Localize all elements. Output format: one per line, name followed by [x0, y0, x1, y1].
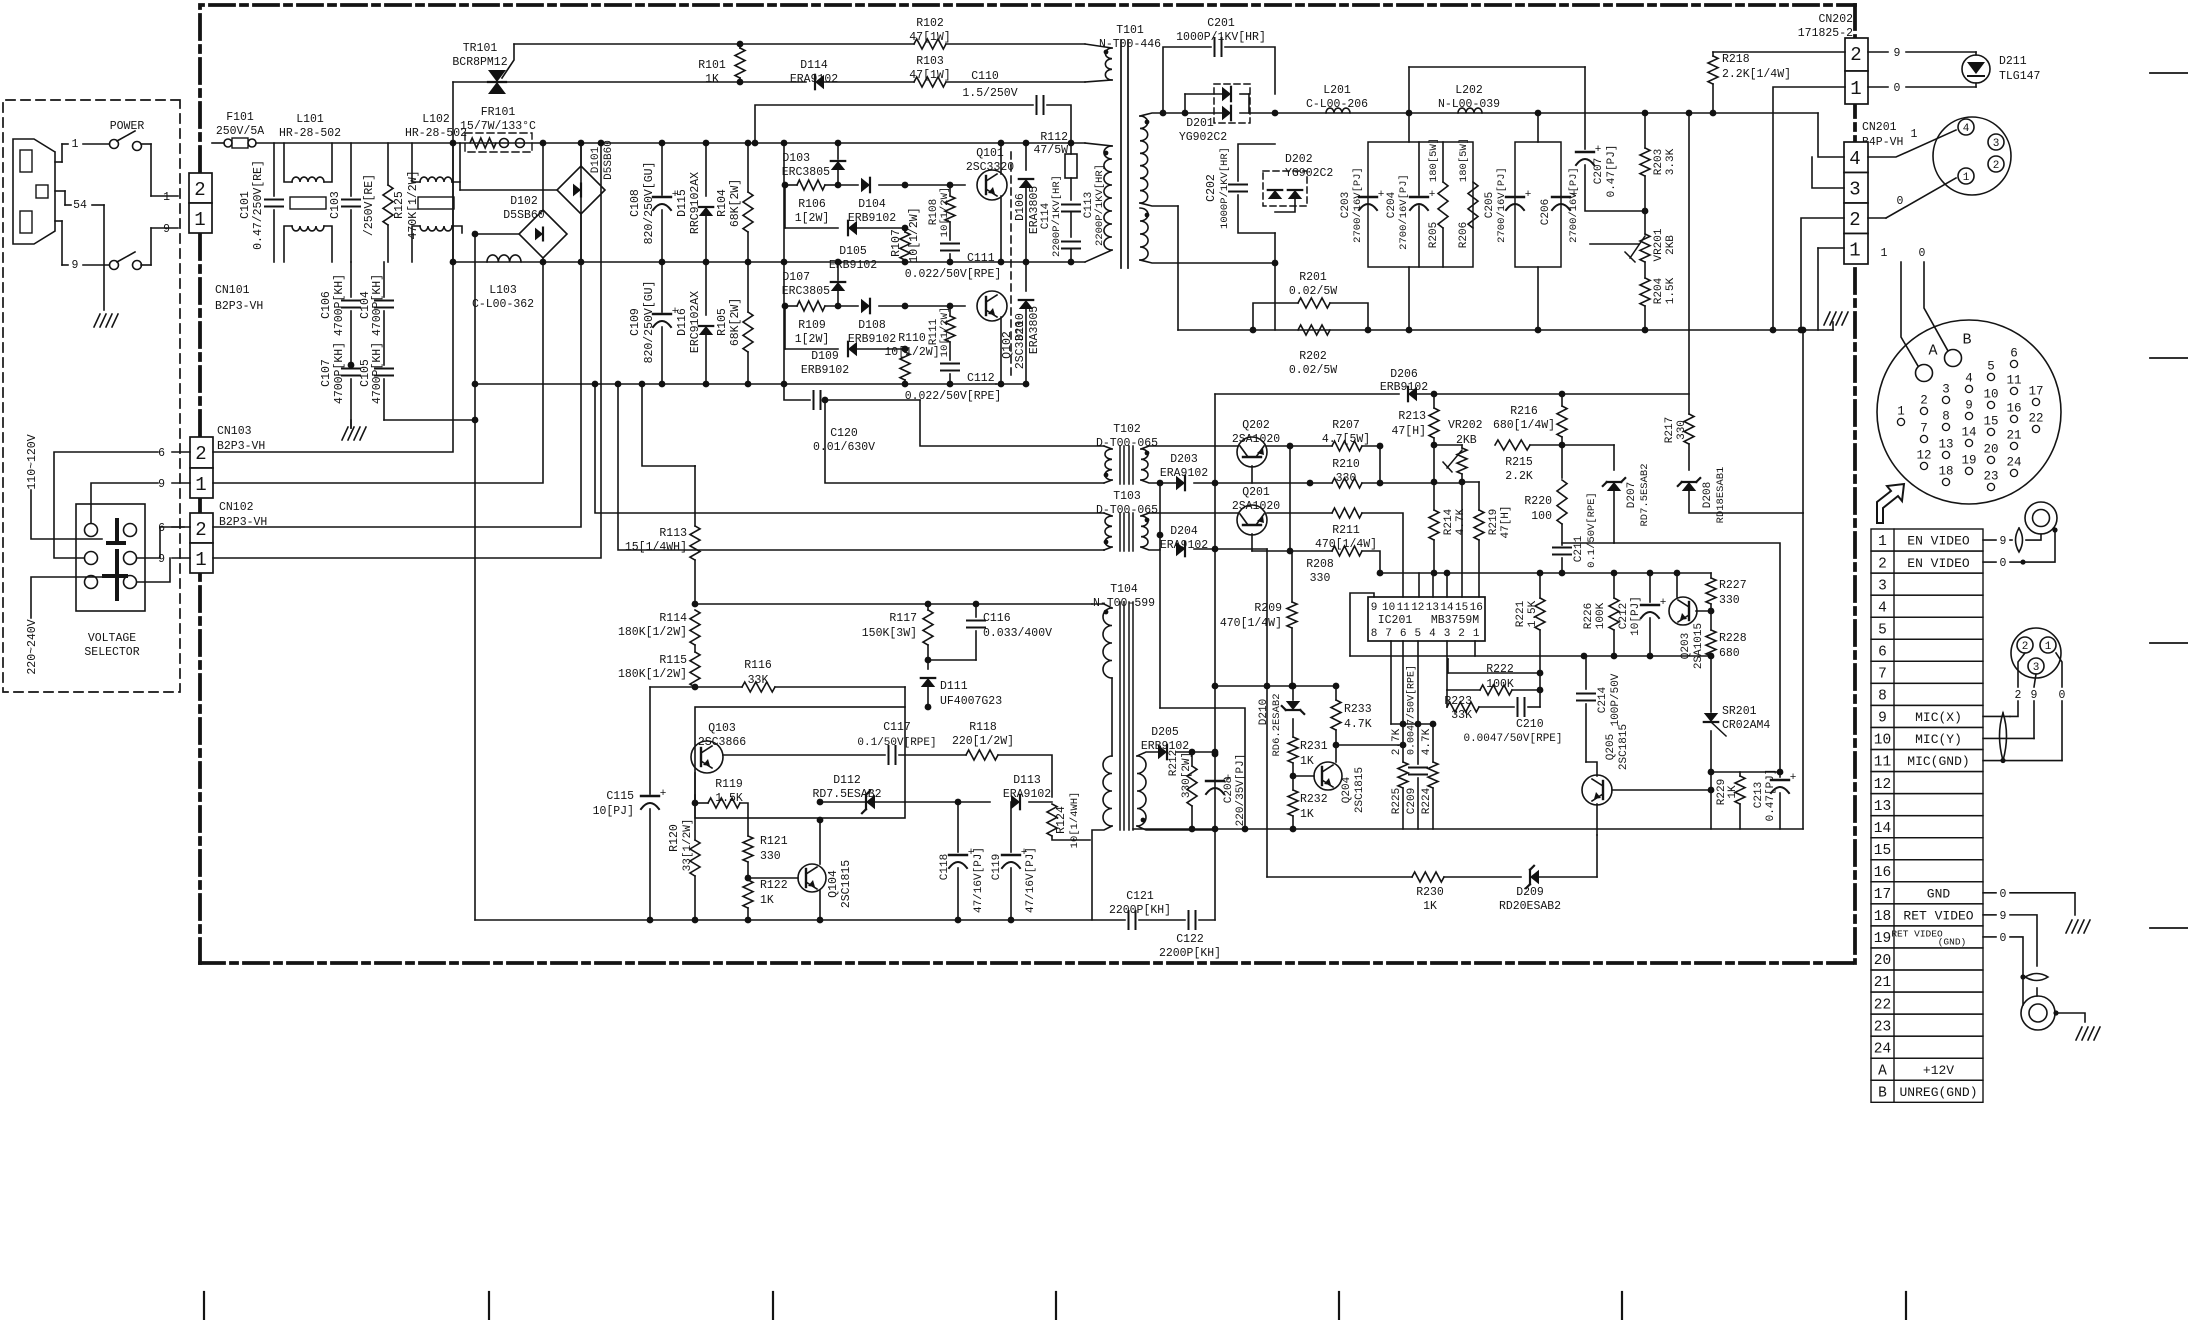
svg-text:R124: R124 [1055, 806, 1068, 834]
svg-text:13: 13 [1938, 438, 1953, 452]
svg-text:180[5W]: 180[5W] [1458, 138, 1470, 182]
svg-text:100P/50V: 100P/50V [1610, 673, 1622, 726]
svg-text:0.0047/50V[RPE]: 0.0047/50V[RPE] [1463, 733, 1562, 745]
svg-text:820/250V[GU]: 820/250V[GU] [643, 281, 656, 364]
svg-text:7: 7 [1385, 628, 1392, 640]
svg-text:C117: C117 [883, 721, 911, 734]
svg-text:VR202: VR202 [1448, 419, 1483, 432]
svg-text:9: 9 [1878, 711, 1887, 727]
wire [1433, 445, 1435, 482]
svg-text:0.1/50V[RPE]: 0.1/50V[RPE] [1586, 492, 1598, 568]
svg-text:Q104: Q104 [827, 870, 840, 898]
svg-text:R212: R212 [1168, 750, 1180, 776]
svg-text:330: 330 [760, 850, 781, 863]
svg-text:Q103: Q103 [708, 722, 736, 735]
svg-text:4700P[KH]: 4700P[KH] [371, 342, 384, 404]
wire [1711, 771, 1780, 773]
svg-text:0.01/630V: 0.01/630V [813, 441, 875, 454]
svg-text:4: 4 [1963, 123, 1970, 135]
svg-text:14: 14 [1874, 821, 1891, 837]
svg-text:4: 4 [1878, 600, 1887, 616]
svg-text:12: 12 [1411, 602, 1424, 614]
svg-text:+: + [1378, 189, 1385, 201]
svg-text:C204: C204 [1386, 191, 1398, 218]
svg-text:11: 11 [2006, 374, 2021, 388]
svg-text:2700/16V[PJ]: 2700/16V[PJ] [1398, 174, 1410, 250]
svg-text:D201: D201 [1186, 117, 1214, 130]
svg-text:+: + [1021, 847, 1028, 859]
svg-text:R114: R114 [659, 612, 687, 625]
DIN connector face [1933, 117, 2011, 195]
svg-text:CN103: CN103 [217, 425, 252, 438]
svg-text:D107: D107 [782, 271, 810, 284]
svg-text:/250V[RE]: /250V[RE] [363, 174, 376, 236]
svg-text:+: + [1660, 597, 1667, 609]
svg-text:0.033/400V: 0.033/400V [983, 627, 1052, 640]
svg-text:MIC(GND): MIC(GND) [1907, 754, 1969, 769]
svg-text:R222: R222 [1486, 663, 1514, 676]
svg-text:10: 10 [1382, 602, 1395, 614]
svg-text:VOLTAGE: VOLTAGE [88, 632, 136, 645]
svg-text:2: 2 [1849, 209, 1860, 231]
svg-text:ERC3805: ERC3805 [782, 285, 830, 298]
svg-text:4.7K: 4.7K [1344, 718, 1372, 731]
svg-text:9: 9 [2000, 535, 2007, 548]
svg-text:2SC1815: 2SC1815 [840, 860, 853, 908]
svg-text:D5SB60: D5SB60 [603, 140, 615, 180]
svg-text:21: 21 [1874, 975, 1891, 991]
svg-text:+: + [1429, 189, 1436, 201]
svg-text:2: 2 [194, 179, 205, 201]
svg-text:ERB9102: ERB9102 [1380, 381, 1428, 394]
wire [1275, 112, 1818, 114]
svg-text:180[5W]: 180[5W] [1428, 138, 1440, 182]
AC inlet plug [13, 139, 55, 244]
svg-text:3: 3 [2033, 662, 2040, 674]
svg-text:2700/16V[PJ]: 2700/16V[PJ] [1352, 167, 1364, 243]
svg-text:3.3K: 3.3K [1665, 148, 1677, 175]
svg-text:24: 24 [1874, 1041, 1891, 1057]
svg-text:CN102: CN102 [219, 501, 254, 514]
svg-text:R209: R209 [1254, 602, 1282, 615]
svg-text:BCR8PM12: BCR8PM12 [452, 56, 507, 69]
svg-text:1: 1 [72, 138, 79, 151]
svg-text:IC201: IC201 [1378, 614, 1413, 627]
svg-text:0: 0 [2000, 932, 2007, 945]
svg-text:+: + [1595, 144, 1602, 156]
svg-text:C111: C111 [967, 252, 995, 265]
svg-text:RRC9102AX: RRC9102AX [689, 172, 702, 234]
svg-text:6: 6 [2010, 347, 2018, 361]
svg-text:R101: R101 [698, 59, 726, 72]
svg-text:2: 2 [1458, 628, 1465, 640]
svg-text:23: 23 [1983, 470, 1998, 484]
svg-text:1[2W]: 1[2W] [795, 212, 830, 225]
svg-text:4: 4 [1849, 148, 1860, 170]
svg-text:C115: C115 [606, 790, 634, 803]
svg-text:16: 16 [2006, 402, 2021, 416]
svg-text:1: 1 [1849, 239, 1860, 261]
svg-text:R118: R118 [969, 721, 997, 734]
svg-text:D102: D102 [510, 195, 538, 208]
svg-text:100K: 100K [1595, 602, 1607, 629]
svg-text:R227: R227 [1719, 579, 1747, 592]
wire [1515, 142, 1561, 267]
svg-text:2: 2 [195, 519, 206, 541]
svg-text:4700P[KH]: 4700P[KH] [371, 274, 384, 336]
svg-text:R113: R113 [659, 527, 687, 540]
wire [1177, 206, 1179, 330]
svg-text:L102: L102 [422, 113, 450, 126]
svg-text:2KB: 2KB [1665, 235, 1677, 255]
svg-text:T104: T104 [1110, 583, 1138, 596]
svg-text:RD18ESAB1: RD18ESAB1 [1715, 467, 1727, 524]
svg-text:CN101: CN101 [215, 284, 250, 297]
svg-text:1[2W]: 1[2W] [795, 333, 830, 346]
svg-text:R122: R122 [760, 879, 788, 892]
svg-text:10[1/2W]: 10[1/2W] [939, 307, 951, 357]
svg-text:12: 12 [1874, 777, 1891, 793]
svg-text:MIC(X): MIC(X) [1915, 710, 1962, 725]
svg-text:T102: T102 [1113, 423, 1141, 436]
svg-text:RD20ESAB2: RD20ESAB2 [1499, 900, 1561, 913]
svg-text:R218: R218 [1722, 53, 1750, 66]
svg-text:R213: R213 [1398, 410, 1426, 423]
svg-text:C106: C106 [320, 291, 333, 319]
svg-text:4700P[KH]: 4700P[KH] [333, 342, 346, 404]
svg-text:0.022/50V[RPE]: 0.022/50V[RPE] [905, 268, 1002, 281]
svg-text:2SC3320: 2SC3320 [966, 161, 1014, 174]
svg-text:2.7K: 2.7K [1391, 728, 1403, 755]
svg-text:4.7K: 4.7K [1421, 728, 1433, 755]
svg-text:C116: C116 [983, 612, 1011, 625]
svg-text:R228: R228 [1719, 632, 1747, 645]
svg-text:R116: R116 [744, 659, 772, 672]
svg-text:10[1/2W]: 10[1/2W] [884, 346, 939, 359]
svg-text:R202: R202 [1299, 350, 1327, 363]
junction node [1770, 327, 1777, 334]
svg-text:1: 1 [1963, 172, 1970, 184]
svg-text:B: B [1878, 1085, 1887, 1101]
svg-text:68K[2W]: 68K[2W] [729, 298, 742, 346]
svg-text:R233: R233 [1344, 703, 1372, 716]
svg-text:R112: R112 [1040, 131, 1068, 144]
svg-text:C212: C212 [1618, 603, 1630, 629]
svg-text:YG902C2: YG902C2 [1285, 167, 1333, 180]
svg-text:CN202: CN202 [1818, 13, 1853, 26]
wire [190, 513, 213, 543]
svg-text:L201: L201 [1323, 84, 1351, 97]
svg-text:13: 13 [1874, 799, 1891, 815]
svg-text:820/250V[GU]: 820/250V[GU] [643, 162, 656, 245]
svg-text:D114: D114 [800, 59, 828, 72]
XLR connector face [2011, 628, 2061, 678]
wire [1010, 152, 1012, 375]
svg-text:R103: R103 [916, 55, 944, 68]
svg-text:D203: D203 [1170, 453, 1198, 466]
svg-text:2SC1815: 2SC1815 [1354, 767, 1366, 813]
svg-text:18: 18 [1874, 909, 1891, 925]
svg-text:D112: D112 [833, 774, 861, 787]
svg-text:15/7W/133°C: 15/7W/133°C [460, 120, 536, 133]
svg-text:47/16V[PJ]: 47/16V[PJ] [973, 847, 985, 913]
svg-text:C122: C122 [1176, 933, 1204, 946]
svg-text:POWER: POWER [110, 120, 145, 133]
svg-text:B: B [1962, 331, 1971, 348]
svg-text:250V/5A: 250V/5A [216, 125, 264, 138]
svg-text:RET VIDEO: RET VIDEO [1903, 909, 1973, 924]
svg-text:2SA1015: 2SA1015 [1693, 623, 1705, 669]
svg-text:C203: C203 [1340, 192, 1352, 218]
svg-text:+: + [1525, 189, 1532, 201]
svg-text:R125: R125 [393, 191, 406, 219]
svg-text:D202: D202 [1285, 153, 1313, 166]
svg-text:0: 0 [2059, 689, 2066, 702]
svg-text:680: 680 [1719, 647, 1740, 660]
svg-text:R231: R231 [1300, 740, 1328, 753]
svg-text:180K[1/2W]: 180K[1/2W] [618, 626, 687, 639]
svg-text:R110: R110 [898, 332, 926, 345]
svg-text:C-L00-362: C-L00-362 [472, 298, 534, 311]
junction node [1537, 570, 1544, 577]
svg-text:54: 54 [73, 199, 87, 212]
svg-text:3: 3 [1993, 138, 2000, 150]
svg-text:D205: D205 [1151, 726, 1179, 739]
svg-text:C103: C103 [329, 191, 342, 219]
svg-text:47[H]: 47[H] [1500, 505, 1512, 538]
svg-text:+: + [660, 788, 667, 800]
svg-text:19: 19 [1874, 931, 1891, 947]
svg-text:1.5K: 1.5K [1665, 277, 1677, 304]
svg-text:330: 330 [1310, 572, 1331, 585]
svg-text:R121: R121 [760, 835, 788, 848]
svg-text:ERC9102AX: ERC9102AX [689, 291, 702, 353]
svg-text:220/35V[PJ]: 220/35V[PJ] [1235, 754, 1247, 827]
svg-text:MIC(Y): MIC(Y) [1915, 732, 1962, 747]
svg-text:(GND): (GND) [1938, 936, 1967, 947]
svg-text:D116: D116 [676, 308, 689, 336]
svg-text:2200P/1KV[HR]: 2200P/1KV[HR] [1051, 175, 1063, 257]
svg-text:180K[1/2W]: 180K[1/2W] [618, 668, 687, 681]
svg-text:C101: C101 [239, 191, 252, 219]
svg-text:C109: C109 [629, 308, 642, 336]
svg-text:6: 6 [1400, 628, 1407, 640]
svg-text:R102: R102 [916, 17, 944, 30]
svg-text:0.47[PJ]: 0.47[PJ] [1765, 769, 1777, 822]
svg-text:2200P[KH]: 2200P[KH] [1159, 947, 1221, 960]
svg-text:2: 2 [1850, 44, 1861, 66]
svg-text:21: 21 [2006, 429, 2021, 443]
svg-text:D211: D211 [1999, 55, 2027, 68]
svg-text:17: 17 [1874, 887, 1891, 903]
svg-text:T101: T101 [1116, 24, 1144, 37]
svg-text:15: 15 [1455, 602, 1468, 614]
wire [453, 261, 1085, 263]
svg-text:23: 23 [1874, 1019, 1891, 1035]
svg-text:13: 13 [1426, 602, 1439, 614]
svg-text:D204: D204 [1170, 525, 1198, 538]
svg-text:0: 0 [1919, 247, 1926, 260]
svg-text:15[1/4WH]: 15[1/4WH] [625, 541, 687, 554]
svg-text:R106: R106 [798, 198, 826, 211]
svg-text:15: 15 [1874, 843, 1891, 859]
svg-text:9: 9 [1371, 602, 1378, 614]
svg-text:1K: 1K [760, 894, 774, 907]
svg-text:10: 10 [1874, 733, 1891, 749]
svg-text:0: 0 [2000, 557, 2007, 570]
svg-text:SELECTOR: SELECTOR [84, 646, 139, 659]
svg-text:R211: R211 [1332, 524, 1360, 537]
wire [1474, 641, 1476, 656]
svg-text:D209: D209 [1516, 886, 1544, 899]
svg-text:Q205: Q205 [1605, 734, 1617, 760]
svg-text:2.2K: 2.2K [1505, 470, 1533, 483]
wire [1368, 597, 1485, 641]
svg-text:HR-28-502: HR-28-502 [279, 127, 341, 140]
svg-text:C211: C211 [1573, 535, 1585, 562]
svg-text:5: 5 [1987, 360, 1995, 374]
junction node [1242, 826, 1249, 833]
svg-text:1: 1 [163, 191, 170, 204]
svg-text:24: 24 [2006, 456, 2021, 470]
svg-text:9: 9 [2000, 910, 2007, 923]
svg-text:2: 2 [2022, 641, 2029, 653]
wire [1688, 113, 1690, 414]
svg-text:68K[2W]: 68K[2W] [729, 179, 742, 227]
svg-text:1.5/250V: 1.5/250V [962, 87, 1017, 100]
svg-text:R226: R226 [1583, 603, 1595, 629]
svg-text:2SC1815: 2SC1815 [1618, 724, 1630, 770]
svg-text:N-L00-039: N-L00-039 [1438, 98, 1500, 111]
svg-text:1K: 1K [1300, 808, 1314, 821]
svg-text:R232: R232 [1300, 793, 1328, 806]
svg-text:2: 2 [2015, 689, 2022, 702]
svg-text:1: 1 [195, 474, 206, 496]
svg-text:0.02/5W: 0.02/5W [1289, 285, 1337, 298]
svg-text:R230: R230 [1416, 886, 1444, 899]
svg-text:ERA9102: ERA9102 [1003, 788, 1051, 801]
svg-text:D208: D208 [1702, 482, 1714, 508]
wire [1159, 483, 1161, 708]
svg-text:D105: D105 [839, 245, 867, 258]
svg-text:20: 20 [1874, 953, 1891, 969]
svg-text:C206: C206 [1540, 199, 1552, 225]
svg-text:9: 9 [2031, 689, 2038, 702]
svg-text:100: 100 [1531, 510, 1552, 523]
svg-text:2700/16V[PJ]: 2700/16V[PJ] [1568, 167, 1580, 243]
svg-text:11: 11 [1874, 755, 1891, 771]
svg-text:R119: R119 [715, 778, 743, 791]
svg-text:D210: D210 [1258, 699, 1270, 725]
svg-text:Q203: Q203 [1680, 633, 1692, 659]
svg-text:L103: L103 [489, 284, 517, 297]
svg-text:2.2K[1/4W]: 2.2K[1/4W] [1722, 68, 1791, 81]
svg-text:0.0047/50V[RPE]: 0.0047/50V[RPE] [1406, 665, 1418, 755]
svg-text:Q101: Q101 [976, 147, 1004, 160]
svg-text:D5SB60: D5SB60 [503, 209, 545, 222]
svg-text:D113: D113 [1013, 774, 1041, 787]
svg-text:3: 3 [1849, 178, 1860, 200]
svg-text:14: 14 [1440, 602, 1454, 614]
svg-text:R206: R206 [1458, 222, 1470, 248]
svg-text:12: 12 [1916, 449, 1931, 463]
svg-text:A: A [1878, 1063, 1887, 1079]
svg-text:YG902C2: YG902C2 [1179, 131, 1227, 144]
svg-text:R201: R201 [1299, 271, 1327, 284]
svg-text:R208: R208 [1306, 558, 1334, 571]
svg-text:8: 8 [1942, 410, 1950, 424]
svg-text:330: 330 [1719, 594, 1740, 607]
svg-text:R219: R219 [1488, 509, 1500, 535]
svg-text:R220: R220 [1524, 495, 1552, 508]
svg-text:33[1/2W]: 33[1/2W] [682, 819, 694, 872]
wire [213, 143, 453, 452]
wire [1266, 549, 1268, 877]
svg-text:ERB9102: ERB9102 [801, 364, 849, 377]
svg-text:RET VIDEO: RET VIDEO [1891, 928, 1943, 939]
svg-text:9: 9 [163, 223, 170, 236]
wire [1802, 330, 1804, 513]
svg-text:3: 3 [1444, 628, 1451, 640]
svg-text:10: 10 [1983, 388, 1998, 402]
svg-text:D-T00-065: D-T00-065 [1096, 437, 1158, 450]
svg-text:+: + [968, 847, 975, 859]
svg-text:EN VIDEO: EN VIDEO [1907, 556, 1970, 571]
svg-text:D110: D110 [1014, 313, 1027, 341]
svg-text:ERC3805: ERC3805 [782, 166, 830, 179]
svg-text:F101: F101 [226, 111, 254, 124]
wire [475, 919, 1125, 921]
wire [1418, 573, 1420, 597]
svg-text:C207: C207 [1593, 158, 1605, 184]
svg-text:0.1/50V[RPE]: 0.1/50V[RPE] [857, 737, 936, 749]
svg-text:20: 20 [1983, 443, 1998, 457]
wire [1368, 142, 1473, 267]
wire [475, 383, 996, 385]
svg-text:D206: D206 [1390, 368, 1418, 381]
svg-text:C107: C107 [320, 359, 333, 387]
svg-text:D115: D115 [676, 189, 689, 217]
svg-text:1K: 1K [705, 73, 719, 86]
svg-text:6: 6 [158, 447, 165, 460]
svg-text:L101: L101 [296, 113, 324, 126]
svg-text:3: 3 [1942, 383, 1950, 397]
svg-text:8: 8 [1878, 689, 1887, 705]
svg-text:4: 4 [1429, 628, 1436, 640]
svg-text:C205: C205 [1484, 192, 1496, 218]
svg-text:L202: L202 [1455, 84, 1483, 97]
svg-text:UNREG(GND): UNREG(GND) [1899, 1085, 1977, 1100]
svg-text:R105: R105 [716, 308, 729, 336]
svg-text:RD7.5ESAB2: RD7.5ESAB2 [1639, 463, 1651, 526]
svg-text:0: 0 [1897, 195, 1904, 208]
svg-text:10[1/2W]: 10[1/2W] [939, 187, 951, 237]
svg-text:6: 6 [1878, 644, 1887, 660]
svg-text:R217: R217 [1664, 417, 1676, 443]
svg-text:D103: D103 [782, 152, 810, 165]
svg-text:MB3759M: MB3759M [1431, 614, 1479, 627]
svg-text:R225: R225 [1391, 788, 1403, 814]
power switch pole 1 [110, 140, 119, 149]
svg-text:R224: R224 [1421, 787, 1433, 814]
svg-text:10[PJ]: 10[PJ] [593, 805, 634, 818]
svg-text:R204: R204 [1653, 277, 1665, 304]
svg-text:1K: 1K [1300, 755, 1314, 768]
svg-text:2SC3866: 2SC3866 [698, 736, 746, 749]
svg-text:C201: C201 [1207, 17, 1235, 30]
svg-text:9: 9 [158, 478, 165, 491]
wire [1350, 593, 1374, 656]
